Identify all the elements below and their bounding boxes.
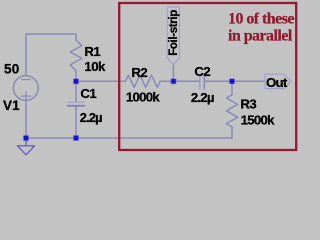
node flag Out <box>265 74 291 90</box>
svg-text:Out: Out <box>266 75 288 90</box>
svg-text:2.2µ: 2.2µ <box>80 110 102 125</box>
wire bottom rail <box>26 137 232 139</box>
wire V1 bottom lead <box>25 100 27 138</box>
node junction Foil-strip <box>171 79 176 84</box>
node junction C1-bottom <box>74 136 79 141</box>
wire R2 to C2 <box>160 80 200 82</box>
svg-text:C1: C1 <box>80 86 96 101</box>
svg-text:C2: C2 <box>194 64 210 79</box>
capacitor C1 <box>67 102 85 106</box>
svg-text:50: 50 <box>4 62 19 77</box>
node junction R1-bottom <box>74 79 79 84</box>
resistor R1 <box>70 34 82 81</box>
annotation box (10 in parallel) <box>119 3 296 150</box>
svg-text:R3: R3 <box>240 97 256 112</box>
svg-text:R1: R1 <box>84 44 100 59</box>
svg-text:10k: 10k <box>84 59 106 74</box>
svg-text:Foil-strip: Foil-strip <box>168 10 180 56</box>
ground <box>17 138 34 155</box>
node junction R3-top <box>230 79 235 84</box>
wire C2 to Out flag <box>205 80 265 82</box>
svg-text:1500k: 1500k <box>241 112 276 127</box>
wire top rail V1 to R1 <box>26 33 76 35</box>
svg-text:V1: V1 <box>3 98 20 113</box>
wire foil-strip stem <box>172 65 174 82</box>
voltage source V1 <box>13 76 38 101</box>
capacitor C2 <box>200 75 205 90</box>
wire V1 top lead <box>25 34 27 76</box>
wire C1 bottom lead <box>75 106 77 138</box>
svg-text:in parallel: in parallel <box>228 28 293 45</box>
wire C1 top lead <box>75 81 77 102</box>
svg-text:1000k: 1000k <box>126 89 161 104</box>
resistor R3 <box>226 81 237 138</box>
svg-text:10 of these: 10 of these <box>228 11 294 28</box>
svg-text:R2: R2 <box>131 65 147 80</box>
node flag Foil-strip <box>167 7 180 65</box>
wire mid rail left (R1 to R2) <box>76 80 125 82</box>
resistor R2 <box>125 75 160 87</box>
node junction V1-bottom <box>24 136 29 141</box>
svg-text:2.2µ: 2.2µ <box>191 90 214 105</box>
